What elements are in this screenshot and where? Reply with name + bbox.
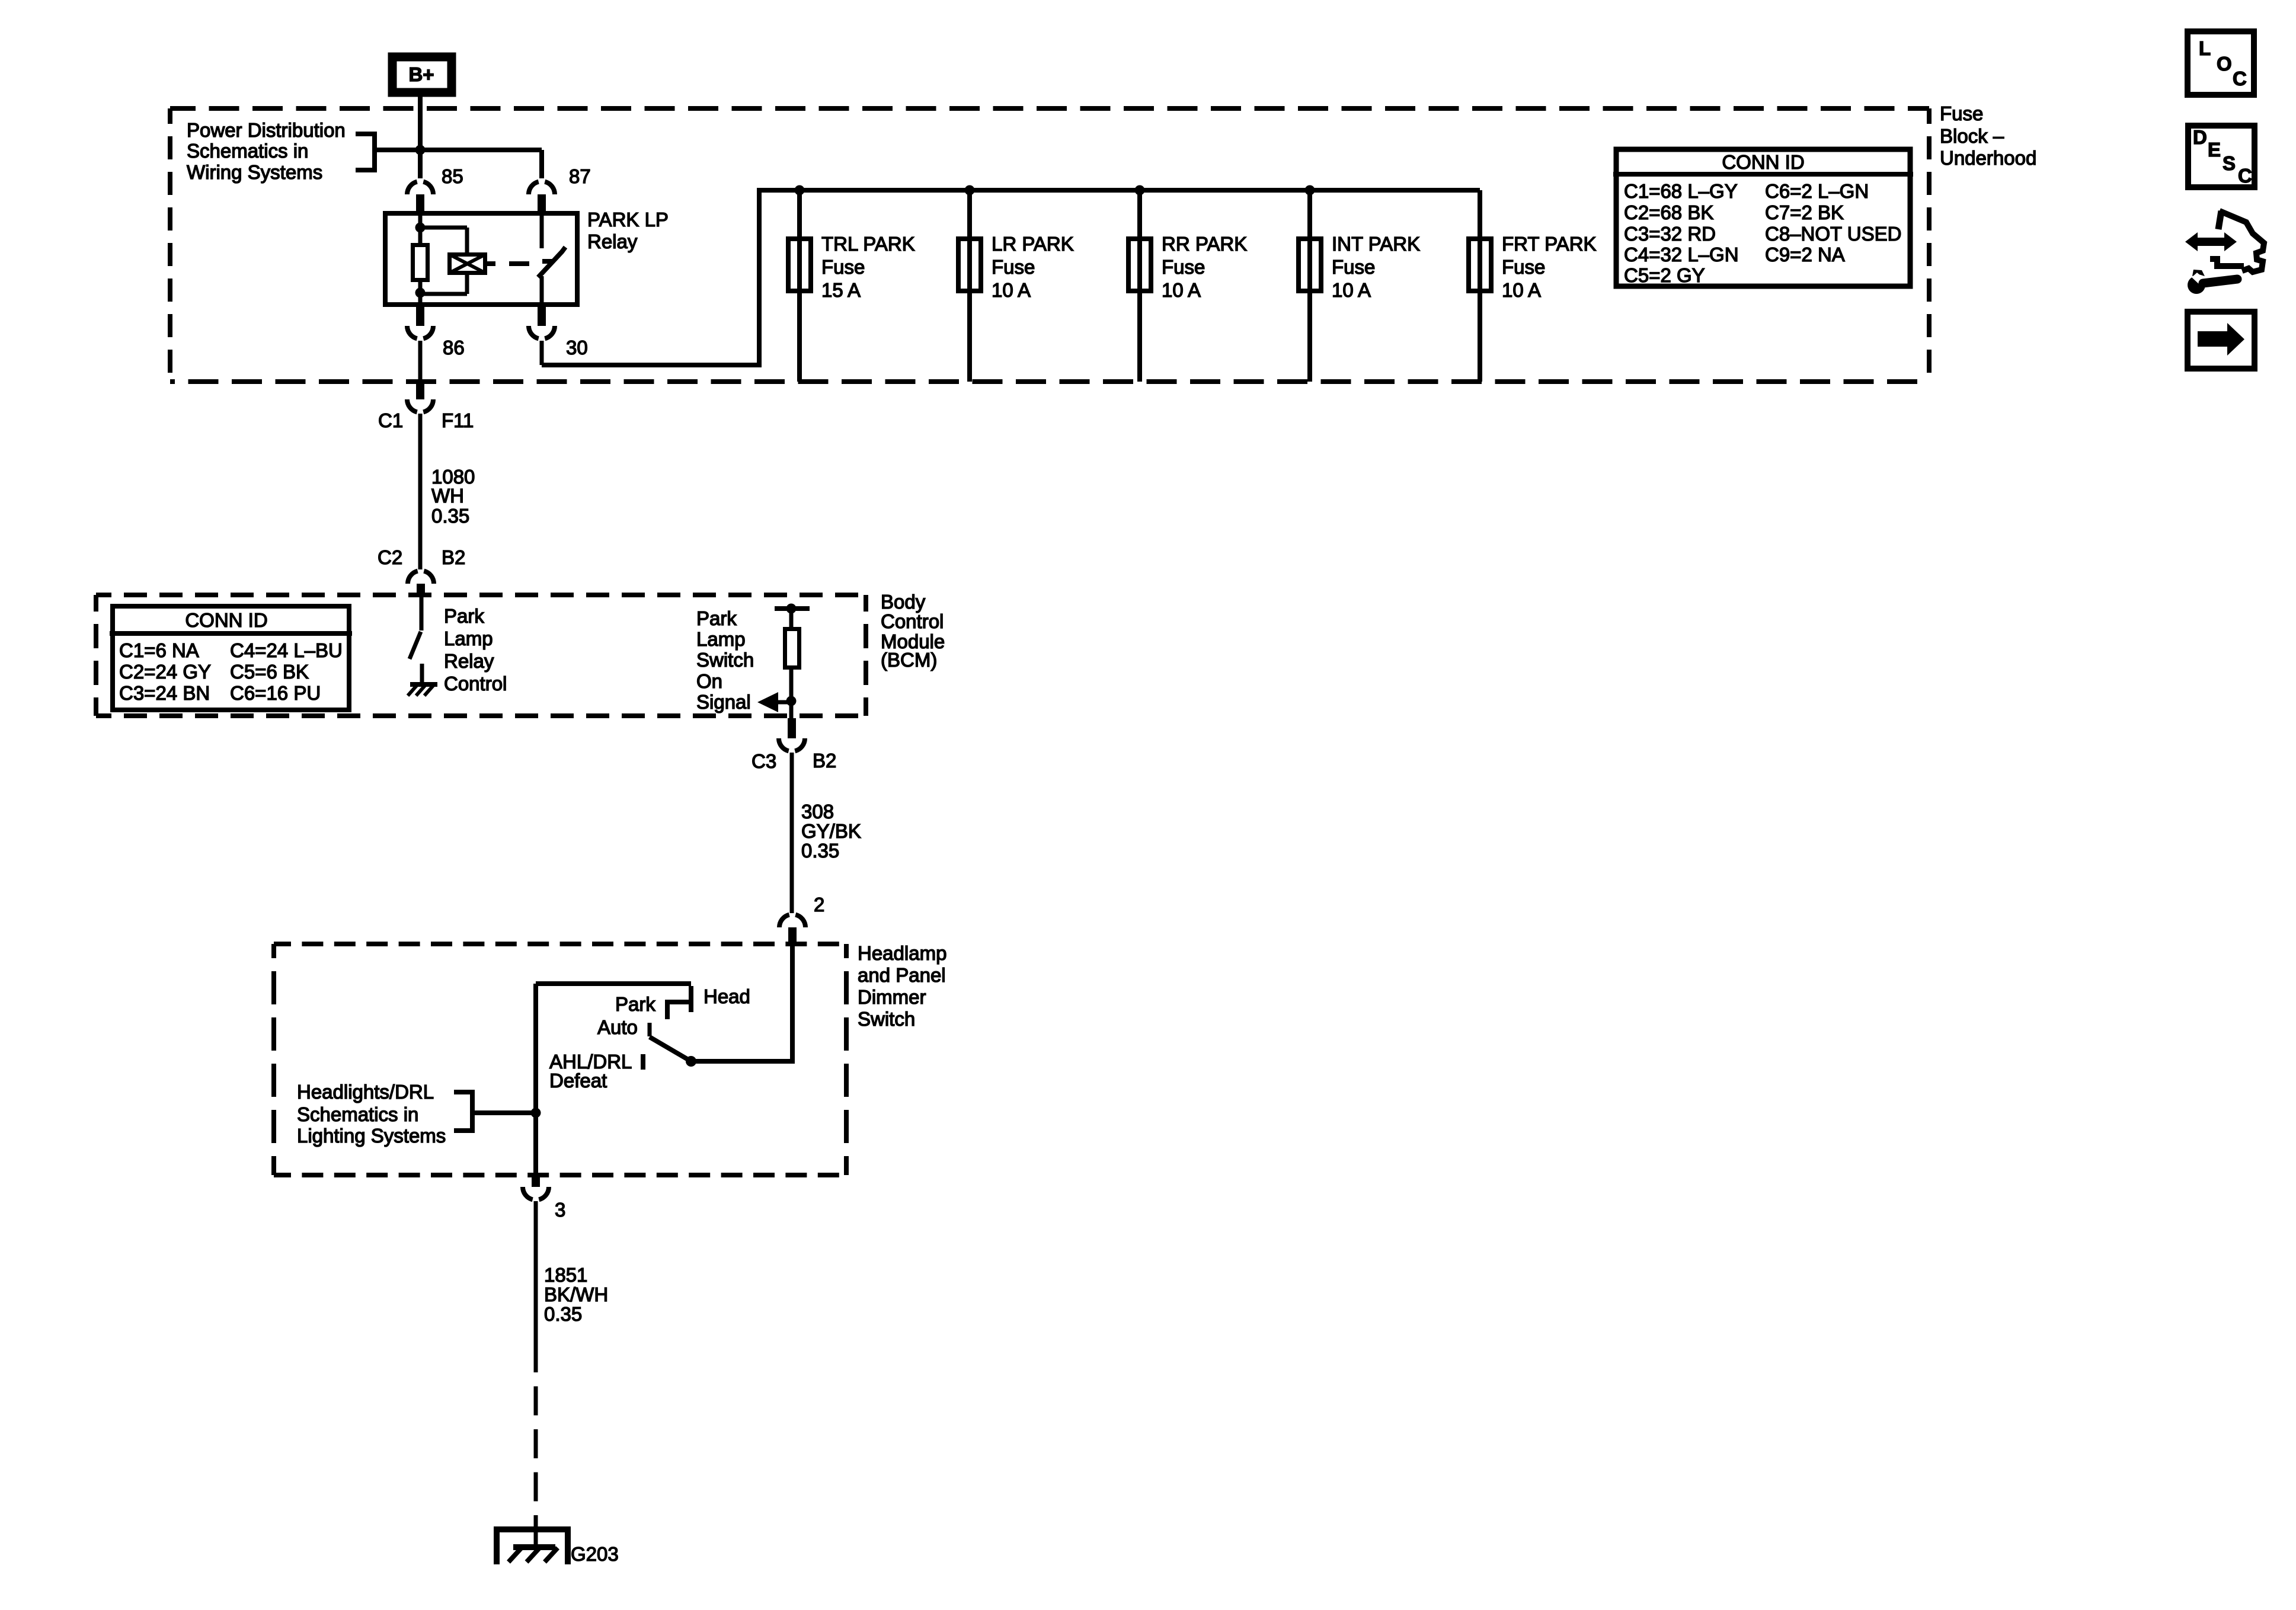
svg-text:87: 87: [569, 165, 591, 187]
svg-text:RR PARK: RR PARK: [1162, 233, 1247, 255]
svg-text:Lamp: Lamp: [444, 628, 493, 649]
svg-text:0.35: 0.35: [544, 1303, 582, 1325]
svg-text:1851: 1851: [544, 1264, 587, 1286]
svg-text:Signal: Signal: [696, 691, 751, 713]
svg-text:GY/BK: GY/BK: [801, 820, 861, 842]
svg-text:2: 2: [814, 894, 824, 916]
svg-text:C5=6 BK: C5=6 BK: [230, 661, 309, 683]
svg-text:Relay: Relay: [587, 231, 638, 252]
svg-text:O: O: [2217, 53, 2232, 75]
svg-text:B2: B2: [813, 750, 836, 772]
svg-text:B2: B2: [442, 546, 465, 568]
svg-text:Headlamp: Headlamp: [858, 942, 946, 964]
svg-text:(BCM): (BCM): [881, 649, 937, 671]
svg-text:Head: Head: [703, 985, 750, 1007]
svg-text:On: On: [696, 670, 722, 692]
svg-text:Fuse: Fuse: [1502, 256, 1545, 278]
svg-text:Schematics in: Schematics in: [297, 1103, 418, 1125]
svg-text:S: S: [2223, 152, 2236, 174]
svg-text:Control: Control: [881, 610, 944, 632]
svg-text:Auto: Auto: [597, 1016, 638, 1038]
svg-text:Park: Park: [444, 605, 484, 627]
svg-text:15 A: 15 A: [821, 279, 861, 301]
svg-text:Control: Control: [444, 673, 507, 694]
svg-text:D: D: [2193, 126, 2207, 148]
svg-text:C8–NOT USED: C8–NOT USED: [1765, 223, 1901, 245]
svg-text:Schematics in: Schematics in: [187, 140, 308, 162]
svg-text:G203: G203: [571, 1543, 619, 1565]
svg-text:C1: C1: [378, 409, 403, 431]
svg-text:B+: B+: [408, 63, 434, 85]
svg-text:LR PARK: LR PARK: [992, 233, 1074, 255]
svg-text:85: 85: [442, 165, 463, 187]
svg-text:Park: Park: [696, 607, 737, 629]
svg-text:308: 308: [801, 801, 834, 822]
svg-text:C3=24 BN: C3=24 BN: [119, 682, 210, 704]
svg-text:C3=32 RD: C3=32 RD: [1624, 223, 1716, 245]
svg-text:C5=2 GY: C5=2 GY: [1624, 264, 1705, 286]
svg-text:F11: F11: [442, 409, 474, 431]
svg-text:Defeat: Defeat: [549, 1070, 607, 1092]
svg-text:0.35: 0.35: [801, 840, 839, 862]
svg-text:30: 30: [566, 337, 588, 359]
svg-text:C6=16 PU: C6=16 PU: [230, 682, 321, 704]
svg-text:C1=68 L–GY: C1=68 L–GY: [1624, 180, 1738, 202]
svg-text:CONN ID: CONN ID: [185, 609, 267, 631]
svg-text:C4=24 L–BU: C4=24 L–BU: [230, 639, 343, 661]
svg-text:C7=2 BK: C7=2 BK: [1765, 201, 1844, 223]
svg-text:Underhood: Underhood: [1940, 147, 2036, 169]
svg-text:10 A: 10 A: [992, 279, 1031, 301]
svg-text:C9=2 NA: C9=2 NA: [1765, 244, 1845, 265]
svg-text:10 A: 10 A: [1332, 279, 1371, 301]
svg-text:E: E: [2208, 139, 2221, 161]
svg-text:FRT PARK: FRT PARK: [1502, 233, 1597, 255]
svg-text:10 A: 10 A: [1162, 279, 1201, 301]
svg-text:INT PARK: INT PARK: [1332, 233, 1420, 255]
svg-text:CONN ID: CONN ID: [1722, 151, 1804, 173]
svg-text:WH: WH: [431, 485, 464, 507]
svg-text:C2: C2: [378, 546, 402, 568]
svg-text:L: L: [2199, 37, 2211, 59]
svg-text:Block –: Block –: [1940, 125, 2004, 147]
svg-text:Fuse: Fuse: [821, 256, 865, 278]
svg-text:Fuse: Fuse: [992, 256, 1035, 278]
svg-text:Switch: Switch: [858, 1008, 915, 1030]
svg-text:and Panel: and Panel: [858, 964, 946, 986]
svg-text:Body: Body: [881, 591, 926, 613]
svg-text:86: 86: [443, 337, 465, 359]
svg-text:10 A: 10 A: [1502, 279, 1541, 301]
svg-text:Fuse: Fuse: [1940, 103, 1983, 124]
svg-text:Switch: Switch: [696, 649, 754, 671]
svg-text:PARK LP: PARK LP: [587, 209, 669, 231]
svg-text:C2=68 BK: C2=68 BK: [1624, 201, 1713, 223]
svg-text:Relay: Relay: [444, 650, 494, 672]
svg-text:Lighting Systems: Lighting Systems: [297, 1125, 446, 1147]
svg-text:C: C: [2233, 68, 2247, 89]
svg-text:Fuse: Fuse: [1332, 256, 1375, 278]
svg-text:C6=2 L–GN: C6=2 L–GN: [1765, 180, 1869, 202]
svg-text:Wiring Systems: Wiring Systems: [187, 161, 322, 183]
svg-text:TRL PARK: TRL PARK: [821, 233, 915, 255]
svg-text:Lamp: Lamp: [696, 628, 746, 650]
svg-text:C2=24 GY: C2=24 GY: [119, 661, 211, 683]
svg-text:C: C: [2238, 165, 2252, 187]
svg-text:Fuse: Fuse: [1162, 256, 1205, 278]
svg-text:C4=32 L–GN: C4=32 L–GN: [1624, 244, 1739, 265]
svg-text:Headlights/DRL: Headlights/DRL: [297, 1081, 434, 1103]
svg-text:Power Distribution: Power Distribution: [187, 119, 346, 141]
svg-text:BK/WH: BK/WH: [544, 1283, 608, 1305]
svg-text:Park: Park: [615, 993, 655, 1015]
svg-text:C3: C3: [752, 750, 776, 772]
svg-text:3: 3: [555, 1199, 565, 1221]
svg-text:Dimmer: Dimmer: [858, 986, 926, 1008]
svg-text:C1=6 NA: C1=6 NA: [119, 639, 199, 661]
svg-text:0.35: 0.35: [431, 505, 469, 527]
